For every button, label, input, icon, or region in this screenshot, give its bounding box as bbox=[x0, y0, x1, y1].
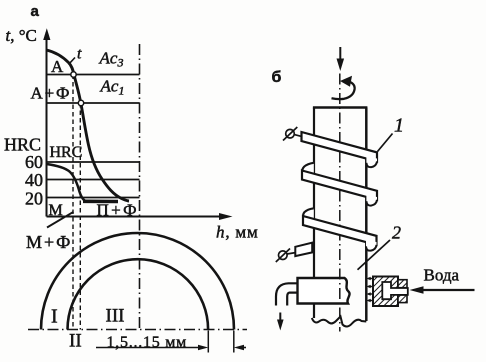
outer semicircle bbox=[41, 233, 234, 330]
Ac1 line bbox=[47, 102, 140, 104]
svg-text:1,5...15 мм: 1,5...15 мм bbox=[107, 334, 188, 351]
coil turn 1 right curl bbox=[366, 157, 377, 168]
dimension line left part bbox=[96, 347, 204, 349]
water arrow bbox=[416, 289, 475, 291]
svg-text:II: II bbox=[69, 331, 82, 352]
gridline HRC20 bbox=[47, 197, 140, 199]
t-axis (vertical) bbox=[46, 32, 48, 217]
svg-text:а: а bbox=[31, 3, 40, 20]
svg-text:40: 40 bbox=[25, 170, 43, 190]
elbow pipe bbox=[276, 283, 298, 305]
dimension line right part bbox=[240, 347, 246, 349]
coil turn 2 right curl bbox=[366, 195, 377, 206]
svg-text:А+Ф: А+Ф bbox=[31, 84, 72, 103]
svg-text:III: III bbox=[106, 306, 125, 327]
svg-text:1: 1 bbox=[394, 115, 404, 137]
coil turn 3 bbox=[303, 216, 377, 245]
svg-text:h, мм: h, мм bbox=[216, 223, 259, 242]
water fitting body bbox=[373, 277, 398, 307]
h-axis (horizontal) bbox=[47, 216, 227, 218]
extension line inner bbox=[207, 331, 209, 353]
cylinder break line bbox=[312, 317, 367, 327]
right dash-dot boundary bbox=[139, 44, 141, 331]
svg-text:20: 20 bbox=[25, 189, 43, 209]
HRC curve flat thick segment bbox=[83, 200, 118, 204]
Ac3 line bbox=[47, 74, 140, 76]
leader 2 bbox=[358, 240, 391, 270]
center line (horizontal dash-dot) bbox=[28, 329, 247, 331]
quench spray block bbox=[298, 278, 350, 304]
leader 1 bbox=[378, 134, 393, 152]
coil turn 1 bbox=[302, 132, 378, 161]
dashed line from node 2 bbox=[79, 103, 81, 330]
coil turn 3 left curl bbox=[303, 208, 314, 219]
svg-text:А: А bbox=[51, 57, 64, 76]
t curve bbox=[47, 50, 130, 201]
svg-text:HRC: HRC bbox=[50, 144, 83, 161]
rotation arrow bbox=[332, 81, 355, 99]
svg-text:Вода: Вода bbox=[424, 266, 460, 285]
water fitting pipe top wall bbox=[398, 280, 407, 288]
quench down arrow bbox=[279, 313, 281, 324]
top feed arrow bbox=[339, 47, 341, 61]
svg-text:t, °C: t, °C bbox=[6, 26, 37, 45]
svg-text:М+Ф: М+Ф bbox=[26, 232, 72, 252]
svg-text:t: t bbox=[77, 46, 82, 63]
svg-text:П+Ф: П+Ф bbox=[97, 201, 140, 220]
gridline HRC60 bbox=[47, 161, 140, 163]
inner semicircle bbox=[68, 259, 209, 329]
HRC curve bbox=[47, 164, 91, 202]
gridline HRC40 bbox=[47, 179, 140, 181]
t curve tick bbox=[69, 58, 76, 65]
shaft center line bbox=[339, 74, 341, 332]
coil turn 2 left curl bbox=[302, 163, 314, 174]
node on Ac1 bbox=[78, 100, 83, 105]
svg-text:60: 60 bbox=[25, 152, 43, 172]
diameter symbol bottom bbox=[279, 251, 288, 260]
leader M+F bbox=[47, 212, 74, 228]
diameter symbol top bbox=[286, 129, 295, 138]
svg-text:М: М bbox=[49, 202, 63, 219]
extension line outer bbox=[233, 331, 235, 353]
water bore bbox=[382, 282, 408, 299]
coil turn 2 bbox=[302, 171, 377, 200]
cylinder body bbox=[313, 108, 315, 319]
water fitting pipe bottom wall bbox=[398, 295, 407, 303]
svg-text:2: 2 bbox=[392, 223, 401, 243]
coil turn 3 right curl bbox=[366, 240, 377, 251]
dashed line from node 1 bbox=[72, 75, 74, 330]
svg-text:I: I bbox=[51, 306, 58, 328]
node on Ac3 bbox=[71, 72, 76, 77]
coil lead-out stub bbox=[295, 243, 312, 256]
svg-text:б: б bbox=[272, 69, 282, 86]
water jets bbox=[368, 279, 373, 301]
